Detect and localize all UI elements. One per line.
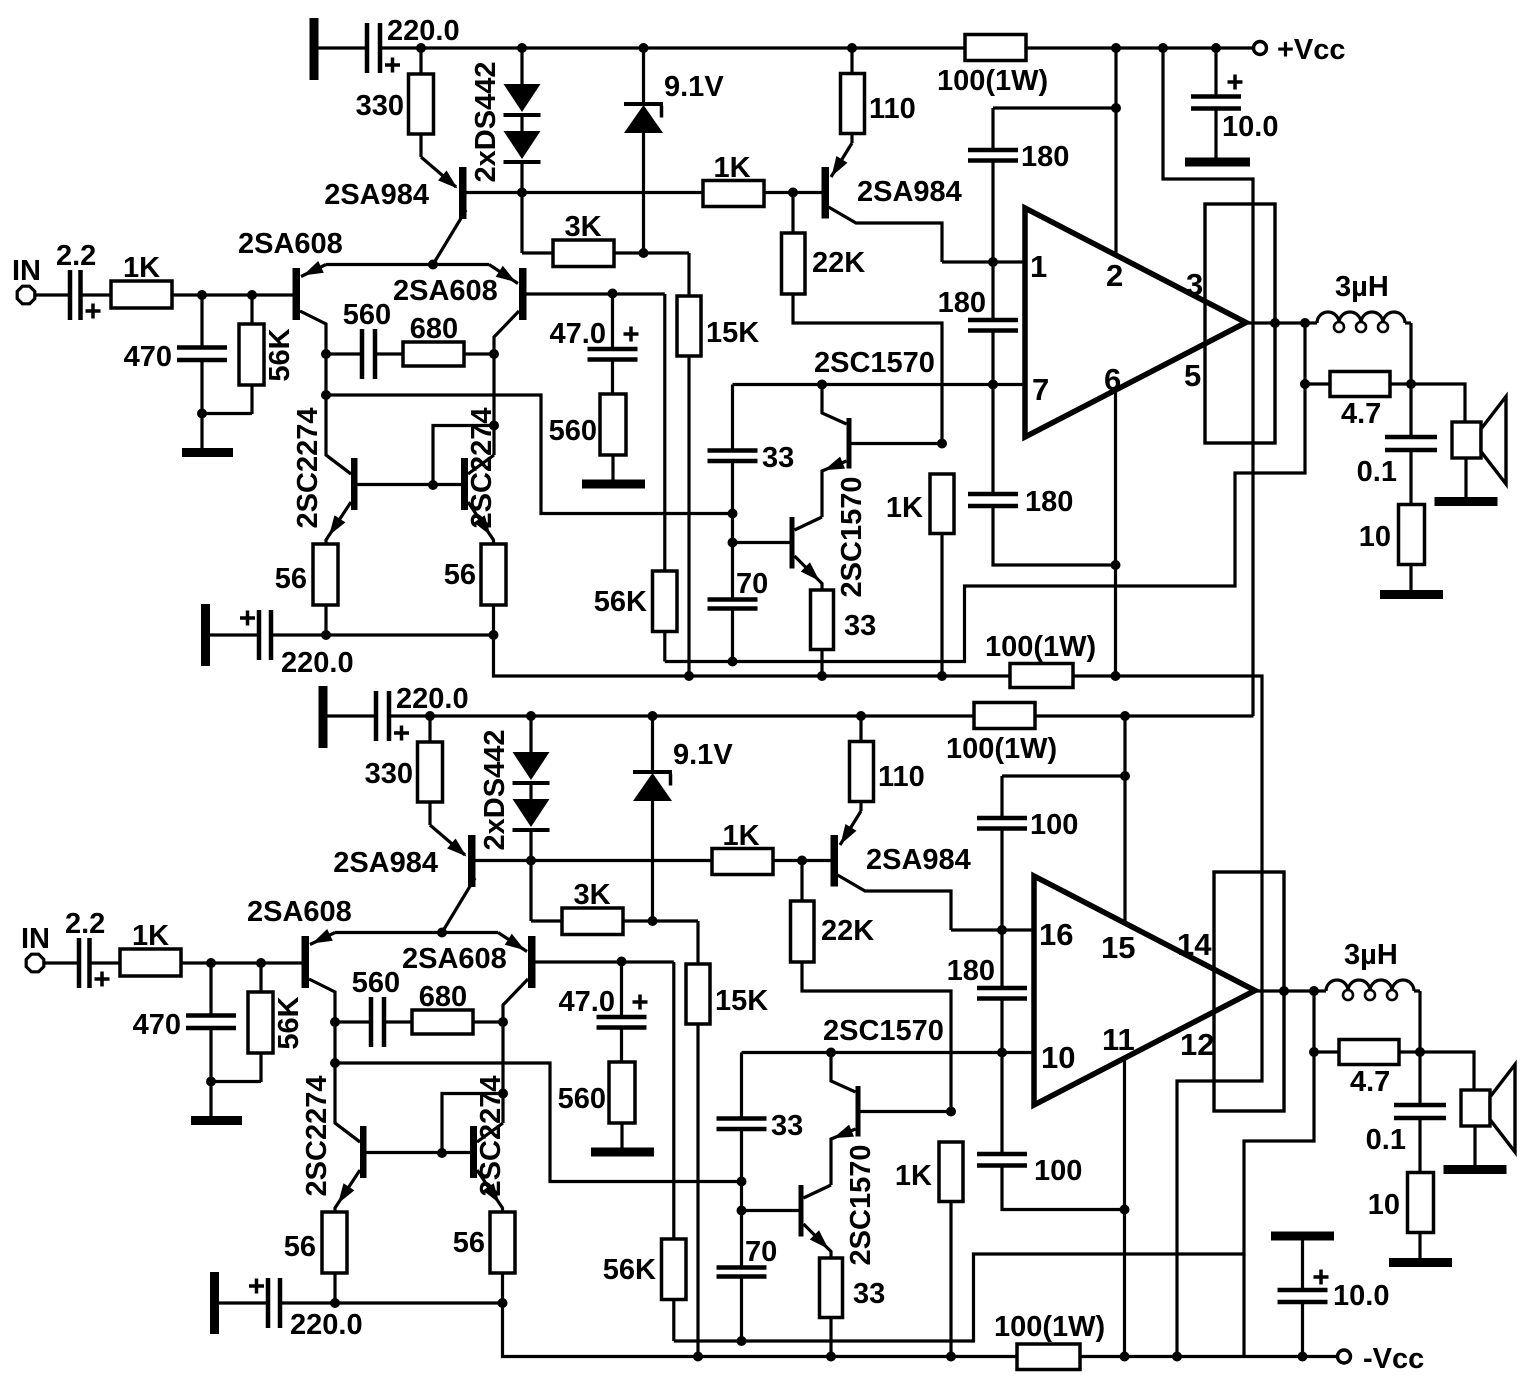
diodes 2xDS442 ch1: [470, 48, 541, 193]
resistor 33 emitter ch1: [811, 590, 877, 676]
svg-text:56K: 56K: [594, 586, 647, 618]
svg-text:680: 680: [410, 313, 458, 345]
svg-text:330: 330: [356, 90, 404, 122]
resistor 4.7 ch1: [1305, 372, 1416, 431]
supply bar top ch2: [319, 686, 328, 748]
node base1570b ch1: [728, 538, 738, 548]
capacitor 220.0 top ch1: [367, 15, 460, 73]
wire emitter row ch2: [280, 1298, 508, 1308]
svg-text:70: 70: [745, 1236, 777, 1268]
pin 2 ch1: [1106, 258, 1123, 293]
svg-text:22K: 22K: [821, 915, 874, 947]
node 47cap ch1: [608, 289, 618, 299]
svg-text:0.1: 0.1: [1357, 456, 1397, 488]
pin 14 ch2: [1177, 927, 1212, 962]
svg-text:11: 11: [1102, 1022, 1135, 1057]
resistor 15K ch1: [677, 296, 759, 676]
transistor 2SC1570a ch2: [823, 1015, 951, 1185]
node neg rail 15K ch2: [693, 1352, 703, 1362]
svg-text:0.1: 0.1: [1366, 1124, 1406, 1156]
wire ch1 Q608b base: [527, 292, 665, 295]
svg-text:2SA984: 2SA984: [857, 176, 962, 208]
wire ch1 C2.2 to R1K: [81, 293, 112, 296]
wire pin2 supply ch1: [1114, 48, 1117, 255]
node fb 70cap ch2: [737, 1336, 747, 1346]
svg-text:220.0: 220.0: [290, 1309, 363, 1341]
svg-text:110: 110: [878, 761, 925, 793]
node zener rail ch2: [648, 711, 658, 721]
capacitor 47.0 ch1: [550, 294, 639, 360]
pin 5 ch1: [1184, 358, 1201, 393]
wire neg rail ch2: [503, 1303, 1338, 1357]
wire ch1 R1K to Q608a base: [172, 293, 293, 296]
svg-text:100: 100: [1034, 1155, 1082, 1187]
node diode base ch1: [517, 188, 527, 198]
ground speaker ch1: [1435, 497, 1498, 506]
node neg rail pin11 ch2: [1120, 1352, 1130, 1362]
wire pin1 ch1: [942, 260, 1025, 263]
ground 10 ch1: [1380, 590, 1443, 599]
wire pin11 ch2: [1123, 1058, 1126, 1357]
wire ch2 R1K to Q608a base: [181, 961, 302, 964]
wire mirror tie ch2: [437, 1022, 508, 1158]
svg-text:15: 15: [1101, 930, 1135, 965]
inductor 3uH ch2: [1314, 939, 1420, 1052]
capacitor 33 ch2: [717, 1053, 804, 1182]
wire cap chain top ch2: [1002, 776, 1125, 818]
speaker ch2: [1420, 1052, 1515, 1166]
pin 12 ch2: [1180, 1027, 1214, 1062]
resistor 330 ch2: [365, 716, 443, 825]
node input-b ch2: [256, 958, 266, 968]
pin 7 ch1: [1032, 372, 1049, 407]
svg-text:2xDS442: 2xDS442: [470, 62, 502, 183]
node neg rail B ch2: [1172, 1352, 1182, 1362]
svg-text:2SA608: 2SA608: [402, 943, 507, 975]
svg-text:56: 56: [275, 563, 307, 595]
transistor 2SC1570b ch1: [790, 477, 869, 598]
supply bar bottom ch1: [201, 604, 210, 666]
resistor 22K ch1: [782, 193, 943, 444]
svg-text:2SA608: 2SA608: [247, 896, 352, 928]
pin 6 ch1: [1104, 362, 1121, 397]
svg-text:1K: 1K: [895, 1160, 932, 1192]
resistor 560 ch2: [558, 1028, 635, 1149]
resistor 1K vas ch1: [886, 439, 954, 677]
capacitor 180 b ch1: [938, 262, 1018, 385]
node 47cap ch2: [617, 957, 627, 967]
pin 15 ch2: [1101, 930, 1135, 965]
wire output ch1: [1246, 321, 1305, 324]
svg-text:15K: 15K: [715, 985, 768, 1017]
resistor 56b ch2: [453, 1212, 515, 1303]
node neg rail 33 ch2: [826, 1352, 836, 1362]
wire base 1570b ch2: [742, 1182, 799, 1211]
svg-text:2: 2: [1106, 258, 1123, 293]
resistor 56a ch1: [275, 544, 338, 635]
svg-text:2SC2274: 2SC2274: [466, 408, 498, 529]
svg-text:33: 33: [762, 442, 794, 474]
resistor 110 ch2: [850, 711, 925, 802]
resistor 4.7 ch2: [1314, 1040, 1425, 1099]
resistor 100(1W) top ch2: [946, 703, 1057, 766]
node pin7 cap ch2: [997, 1048, 1007, 1058]
svg-text:2SC2274: 2SC2274: [292, 408, 324, 529]
terminal -Vcc: [1338, 1343, 1425, 1375]
node tail ch2: [437, 928, 447, 938]
capacitor 0.1 ch2: [1366, 1052, 1446, 1173]
node neg rail 1K ch1: [937, 671, 947, 681]
capacitor 180 a ch1: [968, 141, 1069, 262]
svg-text:4.7: 4.7: [1341, 398, 1381, 430]
node cap33 top ch2: [737, 1177, 747, 1187]
capacitor 10.0 ch1: [1191, 48, 1278, 158]
capacitor 33 ch1: [708, 385, 795, 514]
terminal +Vcc: [1254, 34, 1346, 66]
node tail ch1: [428, 260, 438, 270]
node pin1 ch1: [988, 257, 998, 267]
node coll608b ch2: [498, 1017, 508, 1027]
svg-text:56: 56: [453, 1227, 485, 1259]
transistor 2SC2274a ch2: [301, 1076, 470, 1212]
resistor 680 ch2: [412, 981, 503, 1034]
resistor 560 ch1: [549, 360, 626, 481]
wire neg rail ch1: [494, 635, 1263, 1357]
wire rail ch2: [389, 714, 1254, 717]
wire pin7 ch1: [733, 383, 1026, 386]
resistor 56K fb ch2: [603, 962, 686, 1341]
transistor 2SA608a ch2: [247, 896, 360, 1142]
resistor 10 ch1: [1359, 505, 1425, 592]
svg-text:3µH: 3µH: [1344, 939, 1398, 971]
svg-text:2xDS442: 2xDS442: [479, 730, 511, 851]
node Q984b base ch2: [797, 856, 807, 866]
svg-text:56K: 56K: [264, 328, 296, 381]
svg-text:2SC2274: 2SC2274: [475, 1076, 507, 1197]
svg-text:100(1W): 100(1W): [985, 631, 1096, 663]
svg-text:10: 10: [1041, 1040, 1075, 1075]
wire ch2 bar to C220b: [219, 1301, 268, 1304]
wire ch1 bar to C220: [319, 46, 368, 49]
pin 10 ch2: [1041, 1040, 1075, 1075]
wire ch2 IN to C2.2: [45, 961, 80, 964]
diodes 2xDS442 ch2: [479, 716, 550, 861]
transistor 2SC1570b ch2: [799, 1145, 878, 1266]
node 330 rail ch2: [425, 711, 435, 721]
inductor 3uH ch1: [1305, 271, 1411, 384]
node pin1 ch2: [997, 925, 1007, 935]
wire feedback ch1: [665, 384, 1305, 662]
svg-text:2SA608: 2SA608: [393, 275, 498, 307]
op-amp ch1: [1025, 208, 1246, 437]
capacitor 2.2 ch1: [56, 240, 101, 320]
svg-text:70: 70: [736, 568, 768, 600]
node diode rail ch1: [517, 43, 527, 53]
resistor 330 ch1: [356, 48, 434, 157]
capacitor 100 a ch2: [977, 809, 1078, 930]
node rail pin2 ch1: [1111, 43, 1121, 53]
svg-text:3K: 3K: [573, 879, 610, 911]
wire pin7 ch2: [742, 1051, 1035, 1054]
node pin11 join ch2: [1120, 1205, 1130, 1215]
svg-text:2SC1570: 2SC1570: [823, 1015, 944, 1047]
transistor 2SC2274b ch2: [470, 1076, 507, 1212]
op-amp ch2: [1034, 876, 1255, 1105]
svg-text:33: 33: [771, 1110, 803, 1142]
wire 3K to 15K ch2: [653, 921, 699, 964]
resistor 56K input ch1: [239, 295, 296, 414]
wire base line ch2: [476, 859, 831, 862]
ground 10.0 ch1: [1185, 158, 1250, 167]
svg-text:6: 6: [1104, 362, 1121, 397]
terminal IN ch2: [21, 923, 50, 972]
svg-text:+Vcc: +Vcc: [1277, 34, 1346, 66]
node rail cap10 ch1: [1211, 43, 1221, 53]
svg-text:2SA984: 2SA984: [333, 847, 438, 879]
pin 11 ch2: [1102, 1022, 1135, 1057]
resistor 1K vas ch2: [895, 1107, 963, 1357]
node coll1570a ch1: [817, 380, 827, 390]
resistor 56a ch2: [284, 1212, 347, 1303]
resistor 1K base ch1: [703, 152, 764, 207]
resistor 56b ch1: [444, 544, 506, 635]
svg-text:15K: 15K: [706, 317, 759, 349]
svg-text:180: 180: [947, 955, 995, 987]
svg-text:47.0: 47.0: [550, 318, 606, 350]
svg-text:56: 56: [284, 1231, 316, 1263]
node cap33 top ch1: [728, 509, 738, 519]
node base1570b ch2: [737, 1206, 747, 1216]
resistor 100(1W) top ch1: [937, 35, 1048, 98]
transistor 2SA984a ch2: [333, 825, 475, 933]
svg-text:2SC1570: 2SC1570: [836, 477, 868, 598]
node output module ch1: [1270, 318, 1280, 328]
wire +Vcc rail ch1: [380, 46, 1254, 49]
capacitor 100 c ch2: [977, 1053, 1125, 1210]
svg-text:12: 12: [1180, 1027, 1214, 1062]
node input-a ch2: [206, 958, 216, 968]
node coll1570a ch2: [826, 1048, 836, 1058]
wire ch2 C2.2 to R1K: [90, 961, 121, 964]
resistor 10 ch2: [1368, 1173, 1434, 1260]
capacitor 470 ch1: [124, 295, 227, 414]
wire fb ext ch2: [1242, 1254, 1245, 1357]
capacitor 220.0 bottom ch2: [249, 1278, 363, 1341]
wire ch2 bar to C220: [328, 714, 377, 717]
node coll608a-1 ch1: [321, 349, 331, 359]
node coll608a-2 ch2: [330, 1058, 340, 1068]
svg-text:3K: 3K: [564, 211, 601, 243]
svg-text:7: 7: [1032, 372, 1049, 407]
transistor 2SA608b ch1: [393, 265, 527, 355]
capacitor 180 c ch1: [968, 385, 1116, 566]
wire pin6 ch1: [1114, 390, 1117, 676]
resistor 22K ch2: [791, 861, 952, 1112]
svg-text:100(1W): 100(1W): [937, 65, 1048, 97]
svg-text:14: 14: [1177, 927, 1212, 962]
svg-text:470: 470: [133, 1009, 181, 1041]
svg-text:1K: 1K: [132, 920, 169, 952]
transistor 2SA608b ch2: [402, 933, 536, 1023]
node pin15/cap ch2: [1120, 771, 1130, 781]
wire feedback ch2: [674, 1052, 1314, 1341]
capacitor 70 ch1: [708, 543, 769, 662]
pin 1 ch1: [1030, 249, 1047, 284]
svg-text:180: 180: [938, 287, 986, 319]
node diode base ch2: [526, 856, 536, 866]
transistor 2SC2274b ch1: [461, 408, 498, 544]
resistor 110 ch1: [841, 43, 916, 134]
transistor 2SA984b ch1: [822, 134, 962, 263]
node output module ch2: [1279, 986, 1289, 996]
svg-text:560: 560: [558, 1083, 606, 1115]
capacitor 220.0 top ch2: [376, 683, 469, 741]
svg-text:560: 560: [549, 415, 597, 447]
svg-text:560: 560: [352, 967, 400, 999]
module ch2: [1214, 872, 1284, 1111]
capacitor 470 ch2: [133, 963, 236, 1082]
terminal IN ch1: [12, 255, 41, 304]
svg-text:680: 680: [419, 981, 467, 1013]
wire tail ch1: [326, 263, 489, 266]
svg-text:5: 5: [1184, 358, 1201, 393]
wire emitter row ch1: [271, 630, 499, 640]
svg-text:10: 10: [1368, 1189, 1400, 1221]
svg-text:16: 16: [1039, 917, 1073, 952]
svg-text:-Vcc: -Vcc: [1363, 1343, 1424, 1375]
node Q984b base ch1: [788, 188, 798, 198]
resistor 56K input ch2: [248, 963, 305, 1082]
resistor 3K ch2: [531, 861, 653, 935]
wire cap chain top ch1: [993, 108, 1116, 150]
svg-text:1K: 1K: [722, 820, 759, 852]
svg-text:220.0: 220.0: [281, 647, 354, 679]
node zener 3K ch1: [639, 248, 649, 258]
svg-text:2SA984: 2SA984: [324, 179, 429, 211]
wire ch2 470/56K join: [206, 1077, 261, 1087]
module ch1: [1205, 204, 1275, 443]
supply bar top ch1: [310, 18, 319, 80]
resistor 680 ch1: [403, 313, 494, 366]
wire pin3 feed ch1: [1163, 48, 1253, 716]
svg-text:IN: IN: [12, 255, 41, 287]
wire base 1570b ch1: [733, 514, 790, 543]
capacitor 10.0 ch2: [1278, 1241, 1390, 1357]
resistor 1K base ch2: [712, 820, 773, 875]
svg-text:47.0: 47.0: [559, 986, 615, 1018]
resistor 100(1W) bottom ch2: [994, 1311, 1105, 1370]
wire pin1 ch2: [951, 928, 1034, 931]
node neg rail 1K ch2: [946, 1352, 956, 1362]
resistor 15K ch2: [686, 964, 768, 1357]
svg-text:9.1V: 9.1V: [673, 739, 733, 771]
svg-text:2SC1570: 2SC1570: [814, 347, 935, 379]
resistor 100(1W) bottom ch1: [985, 631, 1096, 688]
capacitor 180 b ch2: [947, 930, 1027, 1053]
capacitor 560 ch1: [326, 299, 403, 379]
node coll608a-1 ch2: [330, 1017, 340, 1027]
ground input ch2: [191, 1082, 242, 1126]
resistor 3K ch1: [522, 193, 644, 267]
node pin2/cap ch1: [1111, 103, 1121, 113]
svg-text:33: 33: [853, 1278, 885, 1310]
ground speaker ch2: [1444, 1165, 1507, 1174]
node neg rail cap10 ch2: [1298, 1352, 1308, 1362]
node zener 3K ch2: [648, 916, 658, 926]
supply bar bottom ch2: [210, 1272, 219, 1334]
capacitor 560 ch2: [335, 967, 412, 1047]
transistor 2SA984b ch2: [831, 802, 971, 931]
resistor 1K input ch2: [120, 920, 181, 976]
resistor 56K fb ch1: [594, 294, 677, 662]
speaker ch1: [1411, 384, 1506, 498]
transistor 2SA984a ch1: [324, 157, 466, 265]
wire ch1 IN to C2.2: [36, 293, 71, 296]
wire mirror tie ch1: [428, 354, 499, 490]
svg-text:2SC1570: 2SC1570: [845, 1145, 877, 1266]
svg-text:3µH: 3µH: [1335, 271, 1389, 303]
wire VAS input ch1: [326, 395, 733, 514]
svg-text:100(1W): 100(1W): [994, 1311, 1105, 1343]
transistor 2SA608a ch1: [238, 228, 351, 474]
svg-text:2SA984: 2SA984: [866, 844, 971, 876]
svg-text:10.0: 10.0: [1222, 111, 1278, 143]
node coll608a-2 ch1: [321, 390, 331, 400]
svg-text:330: 330: [365, 758, 413, 790]
capacitor 0.1 ch1: [1357, 384, 1437, 505]
svg-text:33: 33: [844, 610, 876, 642]
wire output ch2: [1255, 989, 1314, 992]
svg-text:100(1W): 100(1W): [946, 733, 1057, 765]
wire ch2 Q608b base: [536, 960, 674, 963]
svg-text:100: 100: [1030, 809, 1078, 841]
zener 9.1V ch1: [624, 48, 724, 253]
wire ch1 bar to C220b: [210, 633, 259, 636]
node output ch2: [1309, 986, 1319, 996]
node 330 rail ch1: [416, 43, 426, 53]
svg-text:110: 110: [869, 93, 916, 125]
svg-text:2.2: 2.2: [56, 240, 96, 272]
pin 16 ch2: [1039, 917, 1073, 952]
zener 9.1V ch2: [633, 716, 733, 921]
svg-text:220.0: 220.0: [387, 15, 460, 47]
ground 10 ch2: [1389, 1258, 1452, 1267]
svg-text:9.1V: 9.1V: [664, 71, 724, 103]
node input-a ch1: [197, 290, 207, 300]
node rail A ch1: [1158, 43, 1168, 53]
node neg rail 33 ch1: [817, 671, 827, 681]
svg-text:56K: 56K: [603, 1254, 656, 1286]
node fb 70cap ch1: [728, 657, 738, 667]
svg-text:IN: IN: [21, 923, 50, 955]
node pin7 cap ch1: [988, 380, 998, 390]
node rail pin15 ch2: [1120, 711, 1130, 721]
wire base line ch1: [467, 191, 822, 194]
wire tail ch2: [335, 931, 498, 934]
node zener rail ch1: [639, 43, 649, 53]
transistor 2SC1570a ch1: [814, 347, 942, 517]
svg-text:10: 10: [1359, 521, 1391, 553]
node input-b ch1: [247, 290, 257, 300]
capacitor 47.0 ch2: [559, 962, 648, 1028]
node pin6 join ch1: [1111, 560, 1121, 570]
svg-text:2SC2274: 2SC2274: [301, 1076, 333, 1197]
node neg rail pin6 ch1: [1111, 671, 1121, 681]
svg-text:1K: 1K: [886, 492, 923, 524]
wire ch1 470/56K join: [197, 409, 252, 419]
wire fb down ch2: [1309, 991, 1319, 1057]
node output ch1: [1300, 318, 1310, 328]
